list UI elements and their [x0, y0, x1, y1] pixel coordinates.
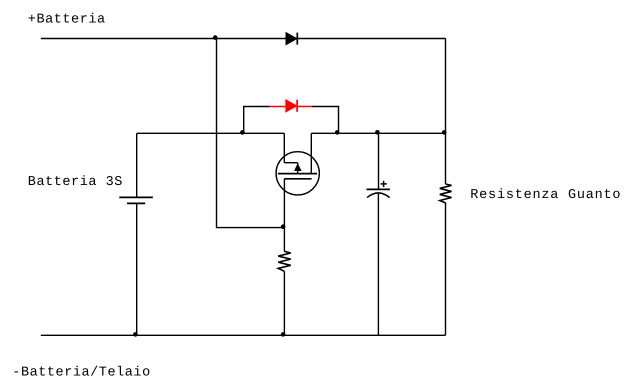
junction dot red diode anode leg [240, 130, 245, 135]
resistor gate pulldown [278, 251, 291, 271]
junction dot capacitor top [375, 130, 380, 135]
wire gate lead down [283, 179, 285, 252]
wire red diode branch (red) [270, 106, 312, 108]
wire battery bottom lead [136, 203, 138, 335]
wire capacitor bottom lead [377, 193, 379, 335]
resistor Resistenza Guanto [440, 184, 452, 203]
wire bottom -Batteria rail [41, 334, 446, 336]
junction dot top rail / gate loop [213, 35, 218, 40]
wire red diode anode leg [244, 107, 270, 134]
wire battery top lead [136, 133, 138, 197]
junction dot battery bottom [133, 332, 138, 337]
svg-text:Resistenza Guanto: Resistenza Guanto [470, 188, 621, 203]
mosfet Q1 channel bar [278, 173, 317, 175]
wire right drop from top rail to mid rail [445, 39, 447, 134]
diode D2 (red bypass diode) [286, 100, 297, 112]
wire capacitor top lead [378, 133, 380, 189]
net label -Batteria/Telaio [12, 366, 150, 381]
junction dot gate node [281, 224, 286, 229]
battery Batteria 3S symbol [119, 197, 153, 203]
junction dot gate resistor bottom [281, 332, 286, 337]
svg-text:-Batteria/Telaio: -Batteria/Telaio [12, 366, 150, 381]
wire gate loop (top rail to gate node) [217, 39, 285, 228]
wire mid rail right segment (MOSFET source to right drop) [311, 132, 445, 134]
wire resistor Resistenza Guanto bottom lead [445, 203, 447, 335]
wire resistor Resistenza Guanto top lead [445, 133, 447, 184]
junction dot right drop / resistor top [442, 130, 447, 135]
wire gate resistor bottom lead [283, 271, 285, 335]
net label +Batteria [28, 13, 106, 28]
label Resistenza Guanto [470, 188, 621, 203]
wire top +Batteria rail [41, 38, 446, 40]
mosfet Q1 drain lead [283, 133, 285, 162]
wire mid rail left segment (battery to MOSFET drain) [137, 132, 285, 134]
mosfet Q1 source lead [310, 133, 312, 173]
diode D1 (series protection diode on top rail) [286, 33, 297, 45]
junction dot red diode cathode leg [335, 130, 340, 135]
wire red diode cathode leg [312, 107, 339, 134]
svg-text:+Batteria: +Batteria [28, 13, 106, 28]
mosfet Q1 internal body connection with arrow [284, 163, 301, 174]
mosfet Q1 body circle [276, 152, 319, 195]
mosfet Q1 gate bar [284, 178, 311, 180]
svg-text:Batteria 3S: Batteria 3S [28, 175, 123, 190]
label Batteria 3S [28, 175, 123, 190]
capacitor C1 polarized symbol [367, 181, 390, 198]
